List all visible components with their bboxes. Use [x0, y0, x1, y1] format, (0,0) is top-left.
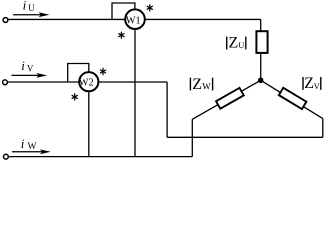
- value label |Z_U|: [226, 37, 227, 50]
- svg-text:W: W: [202, 81, 211, 91]
- svg-text:Z: Z: [229, 35, 239, 52]
- impedance Z_W (rotated resistor box): [216, 88, 244, 109]
- wire: phase W horizontal line: [8, 156, 193, 158]
- svg-text:W1: W1: [126, 16, 141, 27]
- wire: phase V bottom horizontal to ZV: [167, 136, 323, 138]
- svg-text:U: U: [238, 40, 244, 50]
- wire: i_W current arrow: [12, 151, 43, 153]
- wire: phase W up to ZW diagonal: [191, 119, 193, 156]
- wire: diagonal to ZW: [192, 80, 260, 119]
- terminal V: [3, 80, 8, 85]
- svg-text:U: U: [28, 3, 35, 13]
- wire: phase V horizontal line: [7, 81, 167, 83]
- svg-text:W: W: [28, 142, 37, 152]
- wire: diagonal to ZV: [261, 80, 323, 118]
- terminal W: [4, 154, 9, 159]
- impedance Z_U (resistor box): [256, 31, 267, 53]
- svg-text:W2: W2: [79, 78, 94, 89]
- svg-text:i: i: [23, 0, 27, 12]
- impedance Z_V (rotated resistor box): [279, 88, 307, 109]
- wire: i_U current arrow: [13, 14, 42, 16]
- svg-text:Z: Z: [192, 76, 202, 93]
- polarity mark * (W2 bottom left): [72, 94, 77, 100]
- value label |Z_V|: [302, 77, 303, 90]
- wire: ZU lead down to star point: [260, 53, 262, 80]
- svg-text:i: i: [21, 136, 25, 151]
- wattmeter W1: [125, 9, 145, 29]
- polarity mark * (W1 top right): [147, 5, 152, 11]
- wattmeter W2 current coil loop: [68, 64, 89, 83]
- svg-text:V: V: [27, 64, 34, 74]
- wire: i_V current arrow: [12, 74, 40, 76]
- polarity mark * (W1 bottom left): [119, 32, 124, 38]
- wire: W1 voltage coil down to phase W: [134, 30, 136, 157]
- wattmeter W2: [79, 72, 98, 91]
- svg-text:V: V: [314, 81, 321, 91]
- wire: phase U corner down to ZU: [260, 19, 262, 31]
- wire: W2 voltage coil down to phase W: [88, 92, 90, 157]
- polarity mark * (W2 top right): [100, 68, 105, 74]
- wire: phase U horizontal line: [8, 18, 261, 20]
- wire: up to ZV diagonal: [322, 119, 324, 138]
- node: star point junction dot: [258, 78, 264, 84]
- value label |Z_W|: [190, 78, 191, 91]
- wattmeter W1 current coil loop: [112, 3, 135, 19]
- wire: phase V down: [166, 82, 168, 137]
- svg-text:i: i: [21, 58, 25, 73]
- terminal U: [3, 18, 8, 23]
